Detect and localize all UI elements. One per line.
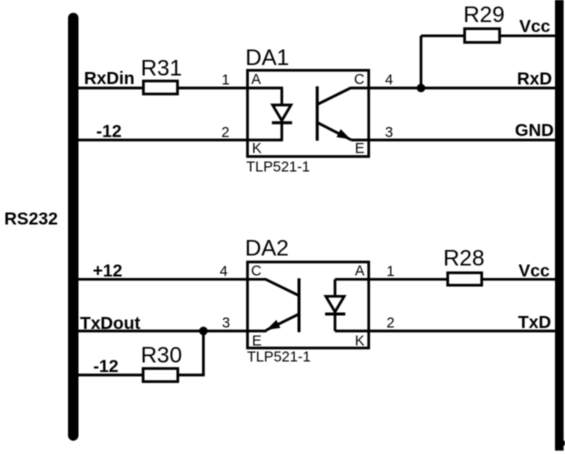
svg-text:C: C — [251, 263, 261, 279]
svg-text:K: K — [252, 141, 262, 157]
wire -12 lower to R30 — [73, 374, 143, 377]
svg-text:R31: R31 — [141, 55, 182, 80]
op-coupler DA1 box — [248, 70, 369, 156]
svg-text:Vcc: Vcc — [519, 16, 550, 36]
right edge bus bar — [555, 0, 564, 451]
RS232 bus bar — [68, 13, 79, 441]
wire pin 3 emitter to GND right bar — [351, 139, 557, 142]
svg-text:1: 1 — [386, 264, 394, 280]
junction node RxD — [417, 84, 426, 93]
resistor R31 — [143, 81, 177, 94]
op-coupler DA2 box — [248, 262, 369, 348]
right bar nub — [562, 441, 565, 446]
resistor R30 — [143, 369, 178, 382]
svg-text:C: C — [354, 72, 364, 88]
wire vertical junction to R30 line — [202, 331, 205, 375]
wire -12 to pin 2 (K) — [73, 139, 283, 142]
wire top Vcc line right of R29 — [500, 34, 557, 37]
svg-text:TxDout: TxDout — [80, 313, 140, 333]
arrow emitter DA2 — [266, 320, 280, 330]
phototransistor of DA1 — [317, 86, 351, 140]
phototransistor of DA2 — [266, 278, 299, 332]
svg-text:RS232: RS232 — [4, 209, 58, 229]
svg-text:R30: R30 — [141, 343, 182, 368]
wire +12 to DA2 collector (pin 4) — [73, 278, 267, 281]
svg-text:K: K — [355, 334, 365, 350]
arrow emitter DA1 — [337, 129, 351, 139]
svg-text:+12: +12 — [93, 261, 123, 281]
wire R28 to Vcc right bar — [482, 278, 557, 281]
svg-text:RxD: RxD — [517, 68, 552, 88]
svg-text:A: A — [251, 72, 261, 88]
svg-text:Vcc: Vcc — [519, 260, 550, 280]
LED of DA2 — [325, 279, 345, 331]
junction node TxDout — [199, 327, 208, 336]
svg-text:1: 1 — [222, 72, 230, 88]
svg-text:3: 3 — [385, 125, 393, 141]
wire TxDout to pin 3 emitter — [73, 330, 267, 333]
wire vertical from RxD junction up to R29 line — [420, 36, 423, 88]
svg-text:-12: -12 — [93, 356, 119, 376]
svg-text:GND: GND — [515, 120, 554, 140]
svg-text:2: 2 — [386, 316, 394, 332]
svg-text:E: E — [355, 141, 365, 157]
resistor R28 — [448, 273, 482, 285]
LED of DA1 — [272, 88, 292, 140]
wire pin 4 collector to RxD right bar — [350, 87, 557, 90]
wire DA2 pin 1 LED anode to R28 — [335, 278, 449, 281]
wire DA2 pin 2 (K) to TxD right bar — [335, 330, 557, 333]
svg-text:R29: R29 — [463, 2, 504, 27]
svg-text:2: 2 — [221, 125, 229, 141]
wire R31 to LED anode (pin 1) — [178, 87, 283, 90]
wire R30 to junction vertical — [178, 374, 205, 377]
resistor R29 — [465, 29, 500, 43]
svg-text:TLP521-1: TLP521-1 — [247, 349, 311, 365]
svg-text:R28: R28 — [443, 246, 484, 271]
svg-text:-12: -12 — [96, 121, 122, 141]
svg-text:4: 4 — [385, 72, 393, 88]
svg-text:DA2: DA2 — [245, 236, 289, 261]
svg-text:4: 4 — [220, 264, 228, 280]
svg-text:RxDin: RxDin — [84, 68, 135, 88]
wire RxDin from bus to R31 — [73, 87, 143, 90]
svg-text:3: 3 — [222, 316, 230, 332]
svg-text:A: A — [355, 263, 365, 279]
svg-text:DA1: DA1 — [245, 45, 289, 70]
svg-text:TLP521-1: TLP521-1 — [246, 159, 310, 175]
wire top Vcc line left of R29 — [421, 34, 465, 37]
svg-text:TxD: TxD — [518, 312, 551, 332]
svg-text:E: E — [252, 334, 262, 350]
